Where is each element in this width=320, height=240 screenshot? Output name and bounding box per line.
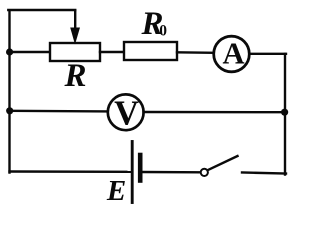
svg-text:A: A — [222, 37, 244, 71]
svg-text:E: E — [106, 175, 126, 207]
svg-text:R: R — [63, 58, 86, 94]
svg-text:0: 0 — [159, 23, 167, 40]
svg-text:V: V — [114, 94, 139, 132]
